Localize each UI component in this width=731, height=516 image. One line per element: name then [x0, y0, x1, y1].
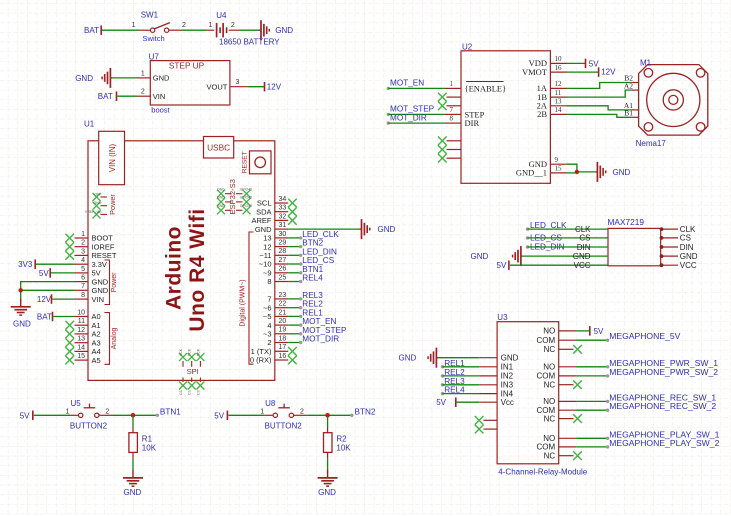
svg-text:VIN (IN): VIN (IN) — [108, 144, 117, 173]
net label 12V at U7 — [264, 82, 266, 92]
no-connect pin 33 of U1 — [288, 207, 297, 216]
svg-text:21: 21 — [279, 309, 287, 316]
svg-text:10K: 10K — [336, 444, 351, 453]
wire and net label MEGAPHONE_REC_SW_1 — [576, 400, 608, 402]
svg-text:0 (RX): 0 (RX) — [250, 356, 272, 365]
svg-text:5V: 5V — [39, 269, 49, 278]
svg-text:SW1: SW1 — [141, 11, 159, 20]
svg-text:18650 BATTERY: 18650 BATTERY — [219, 38, 280, 47]
svg-text:MOT_DIR: MOT_DIR — [302, 335, 339, 344]
pin B1 of M1 — [631, 116, 638, 118]
svg-text:2: 2 — [81, 240, 85, 247]
svg-text:1: 1 — [81, 231, 85, 238]
svg-text:14: 14 — [555, 106, 563, 114]
wire GND to MAX7219 — [523, 255, 608, 257]
net label MOT_DIR at U2 — [387, 121, 390, 124]
svg-text:12: 12 — [555, 80, 563, 88]
svg-text:GND: GND — [399, 354, 417, 363]
wire R1 to GND — [132, 458, 134, 470]
pin B2 of M1 — [631, 82, 638, 84]
pin NC of U3 relay 1 — [559, 348, 574, 350]
no-connect pin 13 of U1 — [65, 338, 74, 347]
svg-text:10K: 10K — [142, 444, 157, 453]
svg-text:VREF (IN): VREF (IN) — [85, 210, 102, 214]
svg-text:RESET: RESET — [241, 151, 248, 173]
pin 19 ~3 of U1 — [275, 333, 289, 335]
svg-text:COM: COM — [537, 336, 556, 345]
pin COM of U3 relay 3 — [559, 409, 576, 411]
svg-text:U4: U4 — [216, 11, 227, 20]
pin 22 ~6 of U1 — [275, 307, 289, 309]
svg-text:8: 8 — [450, 115, 454, 123]
svg-text:1: 1 — [208, 22, 212, 29]
pin 13 2A of U2 — [550, 105, 566, 107]
svg-text:3: 3 — [235, 79, 239, 86]
svg-text:NC: NC — [544, 381, 556, 390]
wire 1A to motor B2 — [567, 83, 632, 89]
pin 29 12 of U1 — [275, 246, 289, 248]
svg-text:CS: CS — [579, 234, 590, 243]
net label REL4 at U3 — [441, 392, 444, 395]
USBC connector of U1 — [204, 137, 234, 159]
pin 20 4 of U1 — [275, 324, 289, 326]
wire and net label MEGAPHONE_PWR_SW_2 — [576, 375, 608, 377]
pin NC of U3 relay 2 — [559, 384, 574, 386]
svg-text:Digital (PWM~): Digital (PWM~) — [240, 279, 247, 326]
svg-text:MEGAPHONE_PLAY_SW_2: MEGAPHONE_PLAY_SW_2 — [609, 438, 719, 448]
svg-text:2: 2 — [105, 408, 109, 415]
svg-text:GND: GND — [275, 26, 293, 35]
pin COM of U3 relay 1 — [559, 339, 576, 341]
no-connect pin 17 of U1 — [288, 347, 297, 356]
svg-text:IN2: IN2 — [501, 372, 514, 381]
ground symbol at R1 — [132, 470, 134, 478]
wire BAT to U7 pin 2 — [118, 95, 138, 97]
wire 1B to motor A2 — [567, 90, 632, 97]
svg-text:GND__1: GND__1 — [516, 168, 547, 178]
svg-text:12V: 12V — [267, 83, 282, 92]
battery U4 — [206, 29, 214, 31]
no-connect pin 1 of U1 — [65, 234, 74, 243]
svg-text:SCL: SCL — [257, 199, 272, 208]
ground at battery — [259, 29, 261, 31]
pin IN2 of U3 — [479, 375, 497, 377]
svg-text:A3: A3 — [92, 338, 101, 347]
svg-text:VCC: VCC — [680, 261, 697, 270]
svg-text:GND: GND — [255, 225, 272, 234]
junction at BTN2 — [325, 413, 330, 418]
svg-text:CS: CS — [188, 390, 192, 395]
svg-text:33: 33 — [279, 205, 287, 212]
ground symbol at U3 — [436, 357, 438, 359]
svg-text:2: 2 — [141, 89, 145, 96]
pin 4 3.3V of U1 — [75, 263, 89, 265]
wire and net label BTN2 — [288, 246, 300, 248]
right pin CLK of MAX7219 — [661, 228, 678, 230]
SPI pins of U1 — [179, 353, 187, 361]
pin 2 VIN of U7 — [137, 95, 150, 97]
svg-text:15: 15 — [77, 353, 85, 360]
pin NO of U3 relay 4 — [559, 437, 576, 439]
svg-text:25: 25 — [279, 274, 287, 281]
bracket Digital (PWM~) group — [249, 232, 254, 364]
svg-text:1 (TX): 1 (TX) — [251, 347, 272, 356]
svg-text:BTN1: BTN1 — [160, 407, 181, 416]
pin 1 ENABLE of U2 — [446, 87, 462, 89]
svg-text:U3: U3 — [497, 313, 508, 322]
svg-text:VOUT: VOUT — [207, 82, 228, 91]
svg-text:SCK: SCK — [179, 348, 183, 356]
svg-text:NC: NC — [544, 414, 556, 423]
svg-text:{ENABLE}: {ENABLE} — [465, 83, 507, 93]
svg-text:GPIO48: GPIO48 — [240, 188, 252, 192]
net label LED_CLK at MAX7219 — [526, 227, 529, 230]
wire and net label MOT_EN — [288, 324, 300, 326]
wire BAT to U1 A0 — [53, 316, 74, 318]
svg-text:CS: CS — [179, 390, 183, 395]
svg-text:NO: NO — [543, 397, 555, 406]
svg-text:GND: GND — [378, 225, 396, 234]
pin 5 5V of U1 — [75, 272, 89, 274]
svg-text:14: 14 — [77, 344, 85, 351]
pin A1 of M1 — [631, 109, 638, 111]
svg-text:5V: 5V — [589, 59, 599, 68]
wire and net label LED_CLK — [288, 237, 300, 239]
no-connect pins of U2 lower — [438, 137, 447, 146]
svg-text:AREF: AREF — [251, 216, 271, 225]
svg-text:SPI: SPI — [187, 367, 199, 376]
wire and net label MEGAPHONE_PLAY_SW_2 — [576, 446, 608, 448]
pin 9 GND of U2 — [550, 163, 566, 165]
svg-text:28: 28 — [279, 248, 287, 255]
svg-text:GPIO48: GPIO48 — [240, 204, 252, 208]
svg-text:REL1: REL1 — [302, 308, 323, 317]
ground symbol right of U1 — [360, 228, 362, 230]
pin 16 VMOT of U2 — [550, 71, 566, 73]
pin IN3 of U3 — [479, 384, 497, 386]
pin 16 0 (RX) of U1 — [275, 359, 289, 361]
svg-text:NO: NO — [543, 363, 555, 372]
svg-text:STEP UP: STEP UP — [169, 61, 205, 71]
wire 3V3 to U1 — [36, 263, 75, 265]
net label REL2 at U3 — [441, 374, 444, 377]
bracket Power group — [105, 260, 110, 305]
svg-text:1: 1 — [260, 408, 264, 415]
wire and net label LED_CS — [288, 263, 300, 265]
svg-text:A4: A4 — [92, 347, 101, 356]
svg-text:5V: 5V — [594, 327, 604, 336]
resistor R1 10K — [132, 427, 134, 433]
motor shaft circles of M1 — [647, 73, 700, 126]
no-connect pin 16 of U1 — [288, 356, 297, 365]
wire U1 pin 31 to GND — [288, 228, 359, 230]
pin 14 2B of U2 — [550, 113, 566, 115]
pin 12 A2 of U1 — [75, 333, 89, 335]
net label BTN1 — [156, 414, 159, 417]
svg-text:CS: CS — [680, 234, 691, 243]
svg-text:2: 2 — [300, 408, 304, 415]
svg-text:U2: U2 — [462, 43, 473, 52]
svg-text:19: 19 — [279, 327, 287, 334]
svg-text:U7: U7 — [149, 53, 160, 62]
svg-text:12V: 12V — [37, 295, 52, 304]
svg-text:4: 4 — [81, 257, 85, 264]
pin 6 GND of U1 — [75, 281, 89, 283]
power jumper pins of U1 — [93, 193, 101, 201]
svg-text:USBC: USBC — [207, 142, 230, 152]
svg-text:U8: U8 — [265, 399, 276, 408]
wire and net label MOT_DIR — [288, 342, 300, 344]
no-connect pin 34 of U1 — [288, 199, 297, 208]
svg-text:COM: COM — [537, 372, 556, 381]
switch SW1 — [139, 29, 150, 31]
pin 11 A1 of U1 — [75, 324, 89, 326]
pin 27 ~10 of U1 — [275, 263, 289, 265]
no-connect pins of U2 upper — [438, 93, 447, 102]
svg-text:Power: Power — [108, 194, 117, 215]
svg-text:MEGAPHONE_PWR_SW_2: MEGAPHONE_PWR_SW_2 — [609, 367, 718, 377]
pin 30 13 of U1 — [275, 237, 289, 239]
svg-text:LED_CS: LED_CS — [302, 256, 334, 265]
svg-text:11: 11 — [78, 318, 85, 325]
svg-text:MOT_DIR: MOT_DIR — [390, 113, 427, 122]
wire 5V to MAX7219 VCC — [510, 264, 608, 266]
svg-text:29: 29 — [279, 240, 287, 247]
svg-text:5V: 5V — [497, 261, 507, 270]
svg-text:GND: GND — [680, 252, 698, 261]
svg-text:VIN: VIN — [92, 295, 105, 304]
wire and net label REL2 — [288, 307, 300, 309]
svg-text:27: 27 — [279, 257, 287, 264]
svg-text:VCC: VCC — [574, 261, 591, 270]
wire U1 GND pin 7 — [21, 289, 75, 291]
svg-text:Uno R4 Wifi: Uno R4 Wifi — [186, 208, 209, 331]
wire and net label REL3 — [288, 298, 300, 300]
svg-text:COM: COM — [537, 443, 556, 452]
wire R2 to GND — [327, 458, 329, 470]
wire and net label MOT_STEP — [288, 333, 300, 335]
svg-text:A1: A1 — [92, 321, 101, 330]
svg-text:4-Channel-Relay-Module: 4-Channel-Relay-Module — [498, 467, 587, 476]
svg-text:3V3: 3V3 — [18, 260, 33, 269]
svg-text:2: 2 — [182, 22, 186, 29]
svg-text:DIN: DIN — [680, 243, 694, 252]
pin 10 A0 of U1 — [75, 316, 89, 318]
svg-text:BAT: BAT — [84, 26, 99, 35]
pin 21 ~5 of U1 — [275, 315, 289, 317]
svg-text:GND: GND — [92, 277, 109, 286]
svg-text:A5: A5 — [92, 356, 101, 365]
svg-text:5V: 5V — [436, 398, 446, 407]
svg-text:2: 2 — [231, 22, 235, 29]
svg-text:BUTTON2: BUTTON2 — [70, 422, 108, 431]
wire and net label MEGAPHONE_PWR_SW_1 — [576, 366, 608, 368]
svg-text:18: 18 — [279, 335, 287, 342]
svg-text:BTN1: BTN1 — [302, 265, 323, 274]
svg-text:GND: GND — [217, 196, 225, 200]
wire and net label REL1 — [288, 315, 300, 317]
pin 18 2 of U1 — [275, 342, 289, 344]
pin 23 7 of U1 — [275, 298, 289, 300]
svg-text:R2: R2 — [336, 434, 347, 443]
svg-text:BAT: BAT — [37, 313, 52, 322]
pin 7 STEP of U2 — [446, 113, 462, 115]
wire GND to U3 — [438, 357, 479, 359]
svg-text:MEGAPHONE_REC_SW_2: MEGAPHONE_REC_SW_2 — [609, 401, 716, 411]
pin 28 ~11 of U1 — [275, 254, 289, 256]
wire U4 to GND — [240, 29, 259, 31]
svg-text:MOT_STEP: MOT_STEP — [390, 105, 435, 114]
pin 15 GND__1 of U2 — [550, 172, 566, 174]
svg-text:A2: A2 — [624, 81, 633, 90]
VIN (IN) connector of U1 — [99, 131, 125, 184]
wire VMOT to 12V — [567, 71, 599, 73]
boost converter U7 box — [150, 61, 230, 105]
svg-text:13: 13 — [555, 98, 563, 106]
svg-text:GND: GND — [471, 252, 489, 261]
no-connect NC of relay 4 — [573, 451, 582, 460]
wire and net label REL4 — [288, 281, 300, 283]
pin 10 VDD of U2 — [550, 62, 566, 64]
svg-text:NC: NC — [544, 452, 556, 461]
net label LED_CS at MAX7219 — [526, 236, 529, 239]
svg-text:U1: U1 — [84, 120, 95, 129]
pin 11 1B of U2 — [550, 96, 566, 98]
svg-text:10: 10 — [555, 55, 563, 63]
svg-text:CS: CS — [196, 390, 200, 395]
svg-text:~10: ~10 — [259, 260, 272, 269]
svg-text:GND: GND — [94, 201, 102, 205]
wire U5 to junction — [113, 414, 157, 416]
pin NO of U3 relay 1 — [559, 330, 576, 332]
svg-text:13: 13 — [263, 234, 271, 243]
svg-text:IOREF: IOREF — [92, 242, 115, 251]
MAX7219 box — [608, 228, 661, 265]
svg-text:12: 12 — [263, 242, 271, 251]
stepper motor M1 — [639, 65, 708, 136]
svg-text:16: 16 — [279, 353, 287, 360]
pin 3 RESET of U1 — [75, 254, 89, 256]
pin 2 IOREF of U1 — [75, 246, 89, 248]
svg-text:CLK: CLK — [575, 225, 591, 234]
svg-text:10: 10 — [77, 309, 85, 316]
svg-text:REL3: REL3 — [302, 291, 323, 300]
svg-text:SCK: SCK — [196, 348, 200, 356]
svg-text:MEGAPHONE_5V: MEGAPHONE_5V — [609, 331, 680, 341]
svg-text:8: 8 — [267, 277, 271, 286]
svg-text:GND: GND — [92, 286, 109, 295]
svg-text:GND: GND — [13, 319, 31, 328]
svg-text:SCK: SCK — [188, 348, 192, 356]
svg-text:1: 1 — [450, 80, 454, 88]
no-connect NC of relay 2 — [573, 380, 582, 389]
svg-text:5V: 5V — [92, 269, 101, 278]
pin NC of U3 relay 3 — [559, 418, 574, 420]
svg-text:26: 26 — [279, 266, 287, 273]
svg-text:23: 23 — [279, 292, 287, 299]
svg-text:1: 1 — [141, 70, 145, 77]
svg-text:GND: GND — [153, 74, 170, 83]
svg-text:RESET: RESET — [92, 251, 117, 260]
svg-text:REL2: REL2 — [302, 300, 323, 309]
svg-text:BTN2: BTN2 — [302, 239, 323, 248]
wire SW1 to U4 — [182, 29, 206, 31]
svg-text:GND: GND — [217, 188, 225, 192]
wire VDD to 5V — [567, 62, 586, 64]
svg-text:GND: GND — [217, 204, 225, 208]
right pin DIN of MAX7219 — [661, 246, 678, 248]
right pin GND of MAX7219 — [661, 255, 678, 257]
wire and net label MEGAPHONE_PLAY_SW_1 — [576, 437, 608, 439]
pin 25 8 of U1 — [275, 281, 289, 283]
wire 12V to U1 — [52, 298, 74, 300]
no-connect pin 14 of U1 — [65, 347, 74, 356]
svg-text:B1: B1 — [624, 109, 633, 118]
wire U2 GND pins — [567, 164, 577, 173]
svg-text:7: 7 — [81, 283, 85, 290]
no-connect pin 2 of U1 — [65, 242, 74, 251]
svg-text:GND: GND — [613, 168, 631, 177]
svg-text:MAX7219: MAX7219 — [608, 217, 645, 227]
svg-text:DIN: DIN — [577, 243, 591, 252]
no-connect pin 15 of U1 — [65, 356, 74, 365]
svg-text:MOT_EN: MOT_EN — [302, 317, 336, 326]
svg-text:7: 7 — [267, 295, 271, 304]
mounting holes of M1 — [644, 69, 653, 78]
svg-text:Vcc: Vcc — [501, 398, 514, 407]
svg-text:BTN2: BTN2 — [355, 407, 376, 416]
svg-text:NC: NC — [544, 345, 556, 354]
svg-text:GND: GND — [124, 488, 142, 497]
svg-text:M1: M1 — [640, 58, 652, 67]
wire junction to R1 — [132, 415, 134, 427]
svg-text:22: 22 — [279, 301, 287, 308]
wire and net label BTN1 — [288, 272, 300, 274]
svg-text:BUTTON2: BUTTON2 — [265, 422, 303, 431]
pushbutton U5 — [70, 414, 78, 416]
wire and net label LED_DIN — [288, 254, 300, 256]
svg-text:GND: GND — [318, 488, 336, 497]
no-connect NC of relay 3 — [573, 414, 582, 423]
junction at GND wires — [19, 288, 23, 292]
svg-text:REL4: REL4 — [302, 274, 323, 283]
pin 14 A4 of U1 — [75, 350, 89, 352]
stepper driver U2 box — [461, 51, 550, 184]
svg-text:boost: boost — [151, 106, 170, 115]
svg-text:Nema17: Nema17 — [636, 139, 667, 148]
pin COM of U3 relay 2 — [559, 375, 576, 377]
net label BTN2 — [350, 414, 353, 417]
no-connect pin 3 of U1 — [65, 251, 74, 260]
svg-text:R1: R1 — [142, 434, 153, 443]
wire 5V to U5 — [34, 414, 70, 416]
svg-text:LED_DIN: LED_DIN — [302, 247, 337, 256]
svg-text:GND: GND — [573, 252, 591, 261]
wire NO to 5V — [576, 330, 590, 332]
svg-text:U5: U5 — [70, 399, 81, 408]
svg-text:34: 34 — [279, 196, 287, 203]
net label 12V at U2 — [598, 67, 600, 77]
RESET button of U1 — [250, 151, 272, 174]
svg-text:12V: 12V — [601, 68, 616, 77]
svg-text:A0: A0 — [92, 312, 101, 321]
bracket Analog group — [105, 313, 110, 365]
wire 5V to U8 — [228, 414, 264, 416]
svg-text:GND: GND — [501, 354, 519, 363]
svg-text:4: 4 — [267, 321, 271, 330]
wire and net label MEGAPHONE_REC_SW_2 — [576, 409, 608, 411]
svg-text:20: 20 — [279, 318, 287, 325]
